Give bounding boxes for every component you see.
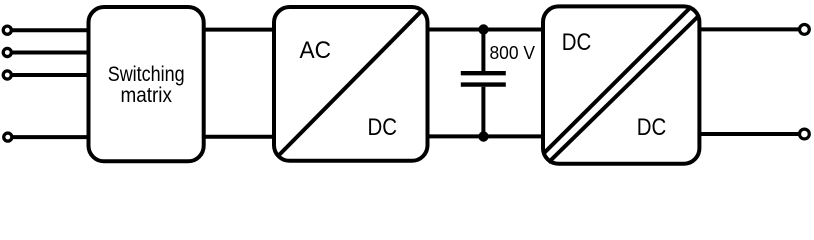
svg-text:DC: DC (368, 114, 398, 141)
capacitor C1 bottom plate (461, 82, 506, 86)
svg-text:AC: AC (300, 37, 332, 64)
junction dot bottom (478, 131, 488, 141)
output terminal T6 (800, 129, 810, 139)
capacitor C1 top plate (461, 71, 506, 75)
U1 diagonal (278, 10, 422, 156)
svg-text:matrix: matrix (120, 83, 172, 107)
DC bus bottom wire (428, 134, 544, 138)
wire T3 to switching matrix (11, 73, 88, 77)
U2 diagonal B (549, 16, 699, 162)
wire T2 to switching matrix (11, 51, 88, 55)
svg-text:800 V: 800 V (490, 42, 536, 63)
output wire top (699, 27, 799, 31)
output terminal T5 (800, 25, 810, 35)
input terminal T4 (4, 133, 12, 141)
svg-text:DC: DC (562, 29, 592, 56)
wire switching matrix to AC/DC top (204, 28, 274, 32)
input terminal T3 (3, 71, 11, 79)
wire T1 to switching matrix (11, 28, 88, 32)
capacitor C1 top lead (481, 30, 485, 72)
junction dot top (478, 24, 488, 34)
DC/DC converter box U2 (543, 6, 699, 163)
input terminal T1 (3, 26, 11, 34)
AC/DC converter box U1 (274, 7, 428, 161)
capacitor C1 bottom lead (481, 87, 485, 137)
switching matrix box (89, 7, 204, 161)
output wire bottom (699, 132, 799, 136)
wire switching matrix to AC/DC bottom (204, 135, 274, 139)
input terminal T2 (3, 48, 11, 56)
U2 diagonal A (545, 7, 692, 153)
svg-text:DC: DC (637, 114, 667, 141)
wire T4 to switching matrix (12, 135, 89, 139)
DC bus top wire (428, 28, 544, 32)
